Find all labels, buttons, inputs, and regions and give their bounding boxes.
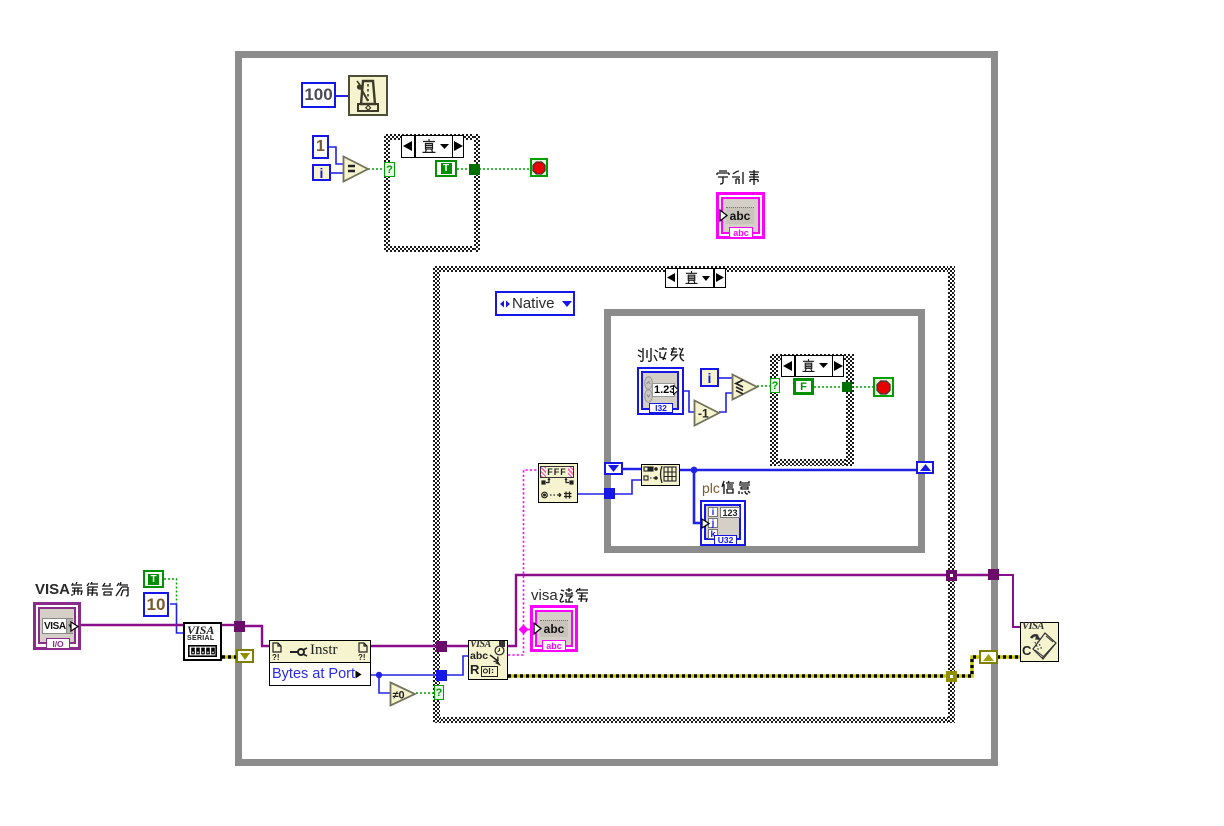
boolean constant F [793, 378, 814, 395]
wire T2 boolean down [164, 579, 177, 603]
junction dot bytes [376, 672, 382, 678]
hex string to number FFF icon [538, 463, 578, 503]
wire 100 to wait [336, 95, 349, 97]
wire serial error to SR [222, 655, 237, 658]
shift register right (blue, inner loop) [916, 461, 934, 474]
iteration terminal i (inner) [700, 368, 719, 387]
array indicator plc信息 [700, 500, 746, 546]
wire case tunnel to visa read [446, 645, 468, 647]
selector terminal ? big case [434, 685, 444, 700]
junction pink diamond [519, 625, 529, 635]
VISA read icon [468, 640, 508, 680]
shift register left (blue, inner loop) [604, 462, 623, 475]
case structure big [433, 266, 955, 272]
VISA close icon [1020, 622, 1059, 662]
wire visa ctl to serial [81, 624, 183, 626]
wire visa read resource out [508, 575, 948, 646]
svg-text:-1: -1 [698, 407, 709, 421]
tunnel olive on big case right border [946, 671, 957, 682]
wire bytes to neq0 [379, 675, 390, 693]
boolean constant T (bottom) [143, 570, 164, 588]
VISA configure serial port icon [183, 622, 222, 661]
wire visa read error out [508, 674, 948, 677]
wire -1 out to cmp [719, 393, 733, 412]
wire array down to plc indicator [694, 470, 701, 523]
wire interleave out to SR right [680, 469, 918, 472]
case structure 1 (top) [384, 134, 480, 140]
wire SR left to interleave [623, 468, 641, 471]
wire 10 to visa serial [170, 604, 183, 633]
while loop outer [235, 51, 998, 766]
wire outer tunnel to visa close [998, 575, 1020, 627]
wire T to tunnel [457, 168, 470, 170]
tunnel inner case right (green) [842, 382, 852, 392]
label visa缓存 [531, 587, 591, 603]
inner case selector terminal ? [770, 378, 780, 393]
svg-text:≠0: ≠0 [393, 690, 405, 702]
wire bytes at port out [371, 674, 437, 676]
tunnel blue on big case left border [436, 670, 447, 681]
big case label bar [665, 268, 726, 288]
wire equals to case1 selector [368, 168, 386, 170]
decrement -1 node [693, 399, 721, 427]
label VISA资源名称 [35, 581, 134, 597]
wire F to tunnel [814, 386, 843, 388]
svg-text:?!: ?! [272, 653, 280, 661]
wire i2 to cmp [719, 377, 733, 379]
stop button 1 [530, 158, 548, 177]
shift register right olive (outer loop) [979, 650, 998, 664]
label plc信息 [702, 479, 752, 496]
tunnel blue on inner loop border [604, 488, 615, 499]
tunnel case1 right (green) [469, 164, 480, 175]
tunnel purple on big case right border [946, 570, 957, 581]
case1 label bar [401, 135, 464, 158]
wire tunnel to interleave [614, 480, 641, 494]
case1 selector terminal ? [384, 162, 395, 177]
label 字符串 [715, 170, 775, 186]
wire SR right to visa close [997, 655, 1020, 658]
wire serial to tunnel [222, 624, 236, 626]
wait ms icon (metronome) [348, 75, 388, 116]
interleave arrays icon [641, 464, 680, 486]
shift register left olive (outer loop) [236, 649, 254, 663]
wire tunnel to property node [243, 626, 269, 646]
wire tunnel to stop1 [479, 168, 531, 170]
tunnel purple on big case left border [436, 641, 447, 652]
wire branch to visa buffer [524, 629, 533, 631]
wire FFF out to tunnel [577, 493, 605, 495]
equal node [342, 155, 370, 183]
wire byte tunnel to visa read [446, 656, 468, 675]
while loop inner [604, 309, 925, 553]
wire numeric to -1 [684, 391, 694, 412]
boolean constant T [435, 160, 457, 177]
tunnel purple on outer loop right border [988, 569, 999, 580]
wire property node to case tunnel [371, 645, 438, 647]
not equal to 0 node [389, 681, 417, 707]
stop button 2 [873, 377, 894, 397]
wire neq0 to case selector [416, 692, 436, 694]
string indicator 字符串 [716, 192, 765, 239]
iteration terminal i (top) [312, 164, 331, 181]
ring constant Native [495, 291, 575, 316]
inner case label bar [781, 355, 844, 377]
string indicator visa缓存 [530, 605, 578, 652]
constant 1 [312, 135, 329, 159]
numeric control 测试数 1.23 I32 [637, 367, 684, 415]
wire i to equals [331, 172, 343, 174]
wire visa read data out (pink) [508, 470, 538, 655]
VISA resource control [33, 602, 81, 650]
svg-text:?!: ?! [358, 653, 366, 661]
constant 100 [301, 82, 336, 108]
tunnel purple on outer loop left border [234, 621, 245, 632]
label 测试数 [637, 347, 685, 363]
property node Instr / Bytes at Port [269, 640, 371, 686]
case structure inner [770, 354, 854, 361]
wire const1 to equals [329, 147, 343, 164]
wire cmp to inner case selector [757, 385, 772, 387]
less-equal cmp node [731, 373, 759, 401]
junction dot array [691, 467, 698, 474]
constant 10 [143, 592, 169, 617]
wire case right tunnel to outer tunnel [956, 574, 990, 576]
wire tunnel to stop2 [852, 386, 874, 388]
wire error tunnel to SR right [956, 657, 980, 676]
